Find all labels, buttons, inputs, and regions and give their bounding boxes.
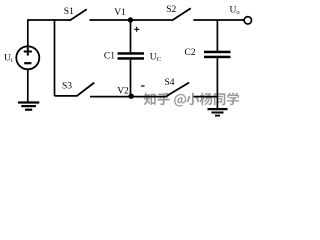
wire: bottom rail middle [90, 96, 166, 98]
ground left [18, 103, 39, 110]
label minus [141, 85, 145, 87]
switch S2 [172, 8, 191, 20]
wire: C1 lower [130, 60, 132, 96]
svg-text:S3: S3 [62, 82, 72, 92]
wire: bottom rail right [194, 96, 218, 98]
switch S4 [166, 83, 189, 97]
watermark zhihu [144, 92, 239, 106]
node V2 [129, 94, 134, 99]
wire: top rail left [27, 19, 70, 21]
wire: C2 lower [216, 58, 218, 108]
node V1 [128, 17, 133, 22]
wire: source top to rail [27, 20, 29, 46]
wire: C1 upper [130, 20, 132, 52]
voltage source U_i [16, 46, 39, 69]
svg-text:C2: C2 [185, 48, 196, 58]
svg-text:V2: V2 [117, 86, 129, 96]
wire: source bottom to ground [27, 69, 29, 101]
svg-text:Uo: Uo [230, 6, 241, 17]
switch S3 [77, 83, 94, 96]
wire: S3 branch vertical [54, 19, 56, 96]
capacitor C1 [118, 52, 145, 60]
capacitor C2 [204, 51, 231, 59]
svg-text:UC: UC [150, 52, 162, 63]
wire: top rail right [193, 19, 244, 21]
svg-text:S1: S1 [64, 7, 74, 17]
label plus [134, 27, 139, 32]
wire: top rail middle [90, 19, 172, 21]
label U_i [4, 54, 13, 65]
svg-text:S2: S2 [166, 5, 176, 15]
svg-text:C1: C1 [104, 52, 115, 62]
wire: bottom rail left [55, 95, 78, 97]
svg-text:V1: V1 [114, 8, 126, 18]
wire: C2 upper [216, 20, 218, 51]
svg-text:S4: S4 [165, 78, 175, 88]
output terminal Uo [244, 17, 251, 24]
ground right [208, 109, 228, 116]
switch S1 [70, 9, 87, 20]
svg-text:Ui: Ui [4, 54, 13, 65]
